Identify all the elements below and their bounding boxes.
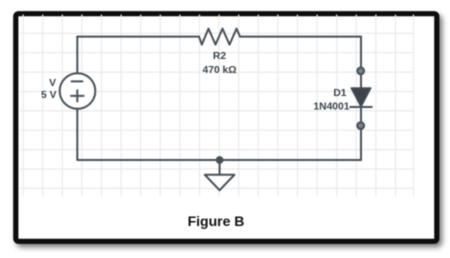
diode cathode bar <box>350 106 372 108</box>
wire terminal to diode <box>360 74 362 88</box>
plus sign <box>71 90 84 101</box>
svg-text:D1: D1 <box>333 88 346 99</box>
terminal node bottom of diode <box>357 122 364 129</box>
svg-text:V: V <box>49 78 56 89</box>
diode D1 triangle <box>351 88 371 107</box>
resistor R2 <box>199 29 240 45</box>
svg-text:470 kΩ: 470 kΩ <box>202 65 236 76</box>
wire top rail left segment <box>77 36 199 38</box>
wire right vertical top <box>360 37 362 68</box>
wire left vertical bottom <box>76 109 78 160</box>
wire bottom rail <box>77 159 361 161</box>
junction dot ground node <box>217 157 223 163</box>
svg-text:R2: R2 <box>213 51 226 62</box>
svg-text:1N4001: 1N4001 <box>313 102 349 113</box>
voltage source V1 circle <box>60 73 96 109</box>
wire top rail right segment <box>240 36 361 38</box>
wire diode to bottom terminal <box>360 107 362 122</box>
ground stem <box>219 160 221 175</box>
terminal node top of diode <box>357 68 364 75</box>
minus sign <box>72 80 83 82</box>
svg-text:Figure B: Figure B <box>188 213 245 229</box>
wire left vertical top <box>76 37 78 74</box>
ground triangle <box>205 175 235 190</box>
wire bottom terminal to rail <box>360 129 362 160</box>
svg-text:5 V: 5 V <box>41 90 57 101</box>
